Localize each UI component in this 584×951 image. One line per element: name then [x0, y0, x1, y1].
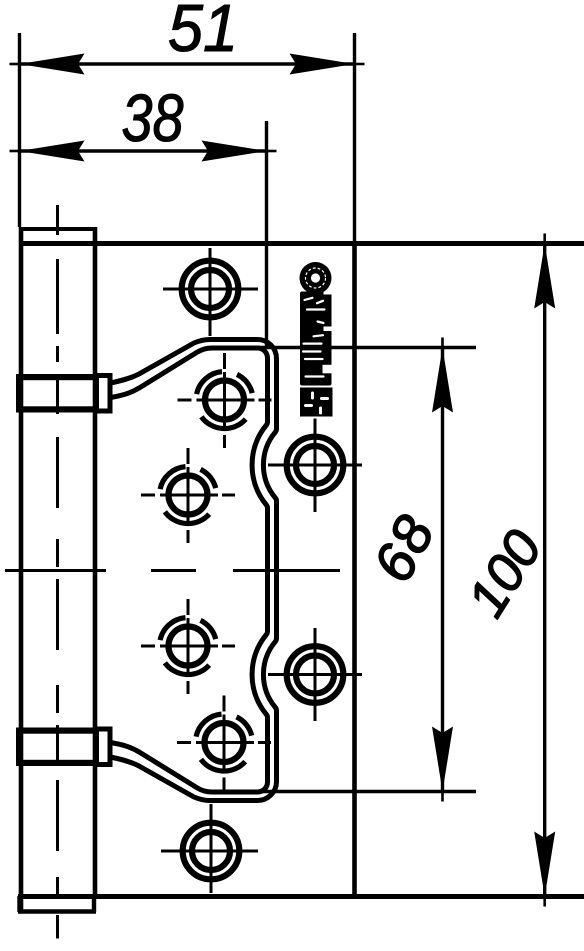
svg-text:51: 51	[168, 0, 238, 66]
svg-text:38: 38	[122, 81, 184, 156]
